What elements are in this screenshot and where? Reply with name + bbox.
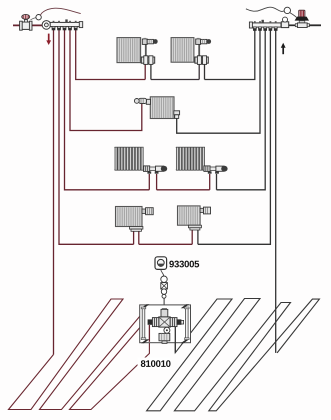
wire row3 middle pipe bbox=[157, 189, 210, 191]
wire row4 radiator A drops bbox=[133, 229, 135, 244]
wire left riser 5 (row1 supply) bbox=[76, 27, 146, 80]
valve V1 shutoff with handwheel (top left) bbox=[20, 14, 32, 30]
wire row1 radiator A return drop bbox=[150, 63, 152, 80]
wire pipe exit right bbox=[308, 24, 321, 26]
valve V2 thermostatic with red cap (top right) bbox=[295, 10, 310, 27]
radiator R1 (row1 left, panel) bbox=[117, 38, 141, 63]
wire right riser 5 (floor return) bbox=[275, 27, 277, 353]
valve thermostatic head row4 B bbox=[200, 207, 210, 214]
valve thermostatic row2 (points left) bbox=[134, 98, 150, 104]
manifold M2 (right return manifold) bbox=[249, 20, 281, 31]
wire capillary tube (left) bbox=[40, 8, 80, 15]
valve H-block row1 A bbox=[141, 56, 154, 65]
valve thermostatic row1 B bbox=[196, 38, 211, 57]
wire supply inlet pipe left bbox=[13, 24, 50, 26]
radiator R4 (row3 left, column) bbox=[114, 147, 143, 171]
wire row4 return pipe to right riser bbox=[198, 27, 271, 244]
wire row4 middle pipe bbox=[139, 243, 192, 245]
pump P1 (top left) bbox=[31, 15, 51, 30]
wire row1 middle pipe bbox=[151, 79, 199, 81]
valve thermostatic row1 A bbox=[142, 38, 157, 57]
valve monotube row3 B bbox=[204, 166, 228, 174]
wire row1 radiator A supply drop bbox=[144, 63, 146, 80]
radiator R5 (row3 right, column) bbox=[176, 147, 205, 171]
wire row1 radiator B supply drop bbox=[198, 63, 200, 80]
wire actuator linkage chain bbox=[161, 270, 168, 310]
black flow direction arrow (up) bbox=[281, 43, 286, 54]
wire left riser 1 (floor supply) bbox=[53, 27, 55, 355]
fitting row4 B bottom bbox=[188, 225, 201, 230]
bracket rails bbox=[141, 307, 189, 340]
mixing valve 810010 assembly bbox=[148, 308, 184, 343]
wire left riser 2 (row4 supply) bbox=[59, 27, 134, 244]
wire left riser 3 (row3 supply) bbox=[65, 27, 150, 190]
wire row1 return pipe to right riser bbox=[205, 27, 255, 80]
radiator R3 (row2, panel) bbox=[150, 97, 174, 119]
air vent fitting on right manifold bbox=[281, 17, 288, 27]
wire row3 radiator A drops bbox=[148, 174, 150, 190]
wire row2 return pipe bbox=[177, 27, 260, 133]
label 810010 bbox=[138, 358, 171, 370]
red flow direction arrow (down) bbox=[46, 34, 51, 45]
radiator R6 (row4 left, panel) bbox=[116, 207, 143, 227]
manifold M1 (left supply manifold) bbox=[50, 19, 83, 30]
label 933005 bbox=[169, 261, 199, 268]
wire left riser 4 (row2 supply) bbox=[70, 27, 142, 131]
wire row3 radiator B drops bbox=[209, 174, 211, 190]
mixing unit mounting box (white plate, occludes serpentines) bbox=[140, 304, 191, 343]
valve monotube row3 A bbox=[144, 166, 168, 174]
wire mixer supply pipe (red, down-left) bbox=[148, 325, 150, 342]
wire floor heating left serpentine (supply) bbox=[9, 299, 155, 410]
valve H-block row1 B bbox=[195, 56, 208, 65]
wire row4 radiator B drops bbox=[191, 229, 193, 244]
radiator R7 (row4 right, panel) bbox=[178, 206, 201, 225]
radiator R2 (row1 right, panel) bbox=[171, 38, 194, 63]
wire row3 return pipe to right riser bbox=[217, 27, 266, 190]
thermostat icon 933005 bbox=[155, 257, 167, 270]
valve thermostatic head row4 A bbox=[142, 208, 153, 215]
fitting row4 A bottom bbox=[130, 227, 143, 232]
valve lockshield row2 (bottom right) bbox=[174, 111, 180, 119]
wire pipe between air vent and valve bbox=[289, 24, 296, 26]
wire row1 radiator B return drop bbox=[204, 63, 206, 80]
wire mixer return pipe (black, down-right) bbox=[174, 326, 176, 353]
wire capillary tube (right) with sensor bbox=[246, 7, 284, 11]
wire floor heating right serpentine (return) bbox=[147, 299, 320, 411]
